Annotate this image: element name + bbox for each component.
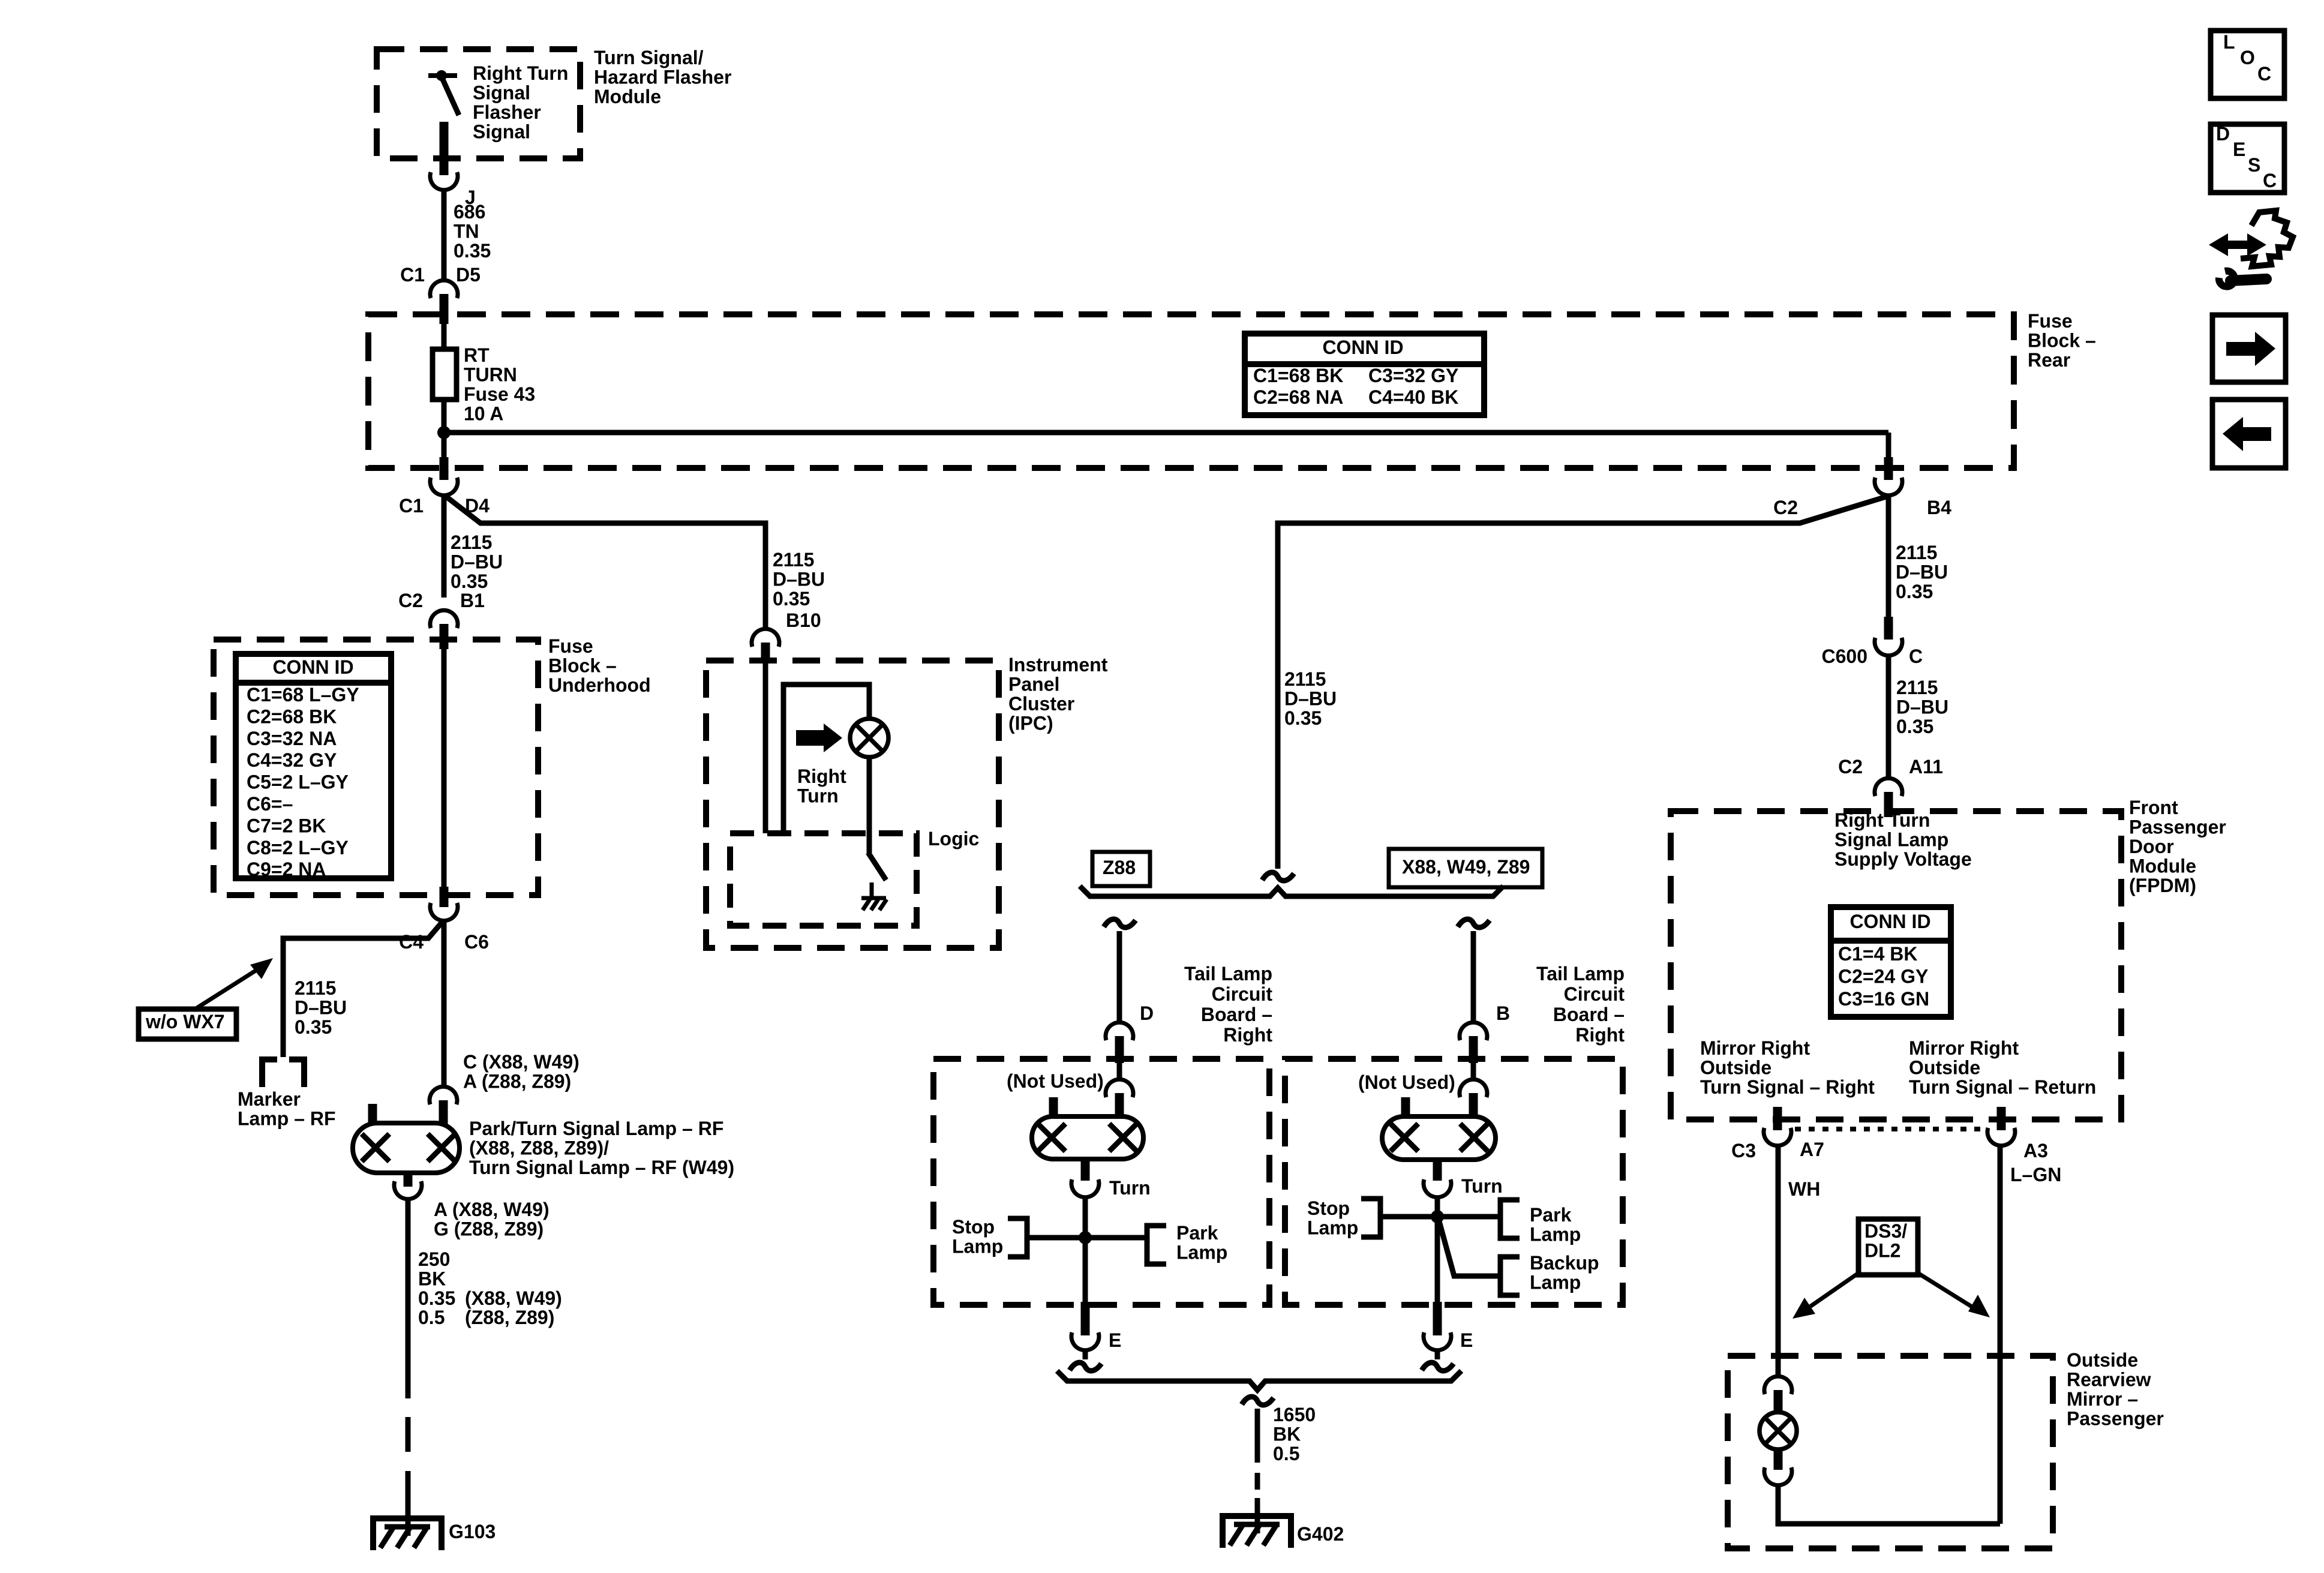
wire IPC lamp loop: [783, 685, 869, 833]
svg-text:0.35: 0.35: [451, 571, 488, 592]
wire into fuse: [442, 324, 447, 349]
svg-text:B4: B4: [1927, 497, 1951, 518]
stub to mirror lamp: [1774, 1390, 1783, 1413]
arrow from w/o WX7 box: [193, 966, 262, 1010]
svg-text:Stop: Stop: [952, 1216, 995, 1238]
connector J at flasher module: [430, 172, 458, 190]
svg-text:BK: BK: [418, 1268, 446, 1290]
svg-text:C6: C6: [464, 931, 489, 953]
wire below E left: [1083, 1350, 1088, 1359]
svg-text:Outside: Outside: [1909, 1057, 1980, 1079]
svg-text:Right Turn: Right Turn: [1834, 809, 1930, 831]
svg-text:DL2: DL2: [1864, 1240, 1900, 1262]
svg-text:Turn: Turn: [1461, 1175, 1503, 1197]
stub out of left tail lamp box: [1081, 1302, 1090, 1335]
svg-text:A3: A3: [2023, 1140, 2048, 1161]
svg-text:(Z88, Z89): (Z88, Z89): [465, 1307, 554, 1328]
svg-text:E: E: [1109, 1329, 1121, 1351]
svg-text:0.35: 0.35: [295, 1016, 332, 1038]
svg-text:Rearview: Rearview: [2067, 1369, 2151, 1391]
pin stub bottom (left lamp): [1081, 1159, 1090, 1181]
svg-text:C3=16 GN: C3=16 GN: [1838, 988, 1929, 1010]
svg-text:B1: B1: [460, 590, 485, 611]
table CONN ID FPDM: [1831, 907, 1951, 1017]
wire fanout C6 to marker branch: [283, 922, 442, 1057]
pin stub right park-turn lamp: [439, 1100, 448, 1124]
svg-text:D–BU: D–BU: [1896, 697, 1948, 718]
connector B10: [752, 629, 779, 647]
tilde end of 2115 center wire: [1262, 872, 1294, 881]
wire below E right: [1435, 1350, 1440, 1359]
svg-text:C4=40 BK: C4=40 BK: [1368, 386, 1458, 408]
svg-text:C1=4 BK: C1=4 BK: [1838, 943, 1918, 965]
stub out of fuse block rear left: [440, 457, 449, 480]
svg-text:Logic: Logic: [928, 828, 979, 849]
connector C1/D5 fuse block rear: [430, 280, 458, 298]
box w/o WX7: [139, 1009, 236, 1039]
wire module output stub: [440, 122, 449, 175]
svg-text:Right Turn: Right Turn: [473, 62, 568, 84]
svg-text:10 A: 10 A: [464, 403, 503, 425]
svg-text:Hazard Flasher: Hazard Flasher: [594, 67, 731, 88]
stub into right tail lamp box: [1469, 1036, 1478, 1063]
wire Z88 drop: [1117, 931, 1122, 1022]
connector B tail lamp board: [1460, 1022, 1487, 1040]
wire fanout B4 to center branch: [1278, 497, 1886, 869]
svg-text:2115: 2115: [1896, 677, 1938, 698]
svg-text:Supply Voltage: Supply Voltage: [1834, 848, 1972, 870]
wire 250 BK to ground: [406, 1471, 411, 1536]
svg-text:C8=2 L–GY: C8=2 L–GY: [247, 837, 349, 858]
icon right arrow box: [2212, 315, 2286, 382]
stub out of FPDM right: [1997, 1107, 2006, 1130]
brace splice spread upper: [1080, 886, 1503, 896]
connector C600/C stub: [1884, 617, 1893, 640]
svg-text:C: C: [1909, 646, 1923, 667]
svg-text:250: 250: [418, 1248, 450, 1270]
svg-text:C7=2 BK: C7=2 BK: [247, 815, 326, 836]
svg-text:Turn Signal Lamp – RF (W49): Turn Signal Lamp – RF (W49): [469, 1157, 734, 1178]
tilde E right: [1422, 1362, 1454, 1371]
icon DESC box: [2211, 124, 2284, 193]
svg-text:G (Z88, Z89): G (Z88, Z89): [434, 1218, 544, 1240]
svg-text:2115: 2115: [1896, 542, 1937, 563]
svg-text:Board –: Board –: [1553, 1004, 1625, 1025]
svg-text:C2=24 GY: C2=24 GY: [1838, 966, 1928, 987]
svg-text:G103: G103: [449, 1521, 496, 1542]
connector into mirror lamp: [1764, 1376, 1792, 1394]
svg-text:Rear: Rear: [2028, 349, 2070, 371]
connector below mirror lamp: [1764, 1467, 1792, 1485]
fuse RT TURN Fuse 43 10A: [433, 349, 457, 400]
dotted connector tie C3: [1795, 1127, 1984, 1131]
svg-text:DS3/: DS3/: [1864, 1220, 1907, 1242]
pin stub bottom (right lamp): [1433, 1160, 1442, 1181]
pin stub left park-turn lamp (not used): [368, 1104, 377, 1125]
svg-text:Passenger: Passenger: [2129, 816, 2226, 838]
arrow DS3 left: [1806, 1273, 1858, 1310]
lamp tail right: [1382, 1116, 1496, 1160]
svg-text:Park: Park: [1530, 1204, 1572, 1226]
svg-text:D5: D5: [456, 264, 481, 286]
svg-text:Park: Park: [1176, 1222, 1218, 1244]
box Tail Lamp Circuit Board right: [1285, 1059, 1623, 1305]
connector lamp pin (right): [1460, 1079, 1487, 1097]
svg-text:B10: B10: [786, 610, 821, 631]
svg-text:Fuse 43: Fuse 43: [464, 383, 535, 405]
wire to junction (left lamp): [1083, 1197, 1088, 1305]
connector C3/A7: [1764, 1128, 1791, 1146]
svg-text:C: C: [2257, 63, 2271, 85]
svg-text:1650: 1650: [1273, 1404, 1316, 1425]
svg-text:C1=68 BK: C1=68 BK: [1253, 365, 1343, 386]
box Fuse Block - Underhood: [214, 640, 538, 895]
box Outside Rearview Mirror - Passenger: [1728, 1356, 2053, 1548]
wire to junction (right lamp): [1435, 1197, 1440, 1305]
box Instrument Panel Cluster IPC: [706, 661, 999, 948]
bracket Park Lamp right: [1500, 1200, 1520, 1238]
svg-text:(Not Used): (Not Used): [1007, 1070, 1104, 1092]
icon component locator (car with arrow and wrench): [2209, 233, 2247, 256]
box Logic: [730, 833, 917, 926]
svg-text:E: E: [2233, 139, 2245, 160]
svg-text:Outside: Outside: [2067, 1349, 2138, 1371]
svg-text:0.35: 0.35: [1284, 707, 1322, 729]
table CONN ID fuse block rear: [1245, 334, 1484, 415]
svg-text:C9=2 NA: C9=2 NA: [247, 858, 326, 880]
svg-text:(X88, Z88, Z89)/: (X88, Z88, Z89)/: [469, 1137, 609, 1159]
svg-text:TN: TN: [454, 221, 479, 242]
svg-text:2115: 2115: [773, 549, 814, 571]
wire 250 BK: [406, 1199, 411, 1398]
connector D tail lamp board: [1106, 1022, 1133, 1040]
svg-text:0.35: 0.35: [1896, 581, 1933, 602]
svg-text:D–BU: D–BU: [451, 551, 503, 573]
svg-text:C6=–: C6=–: [247, 793, 293, 815]
connector C2/B4: [1875, 478, 1902, 496]
bracket Park Lamp left: [1147, 1226, 1166, 1264]
svg-text:0.35: 0.35: [454, 240, 491, 262]
pin stub right (left lamp): [1115, 1093, 1124, 1116]
svg-text:Outside: Outside: [1700, 1057, 1771, 1079]
ground G402: [1223, 1516, 1291, 1548]
svg-text:Signal: Signal: [473, 82, 530, 104]
svg-text:O: O: [2240, 47, 2255, 68]
svg-text:Fuse: Fuse: [2028, 310, 2073, 332]
connector Turn (right lamp): [1424, 1179, 1451, 1197]
wire 250 BK dashed segment: [406, 1417, 411, 1452]
wire 1650 dashed segment: [1255, 1473, 1260, 1490]
svg-text:Board –: Board –: [1201, 1004, 1272, 1025]
svg-text:Tail Lamp: Tail Lamp: [1184, 963, 1272, 984]
wire main below C4/C6: [442, 921, 447, 1087]
svg-text:0.35: 0.35: [418, 1287, 455, 1309]
connector E (right): [1424, 1332, 1451, 1350]
wire to lamp pin (left board): [1117, 1063, 1122, 1079]
svg-text:C1=68 L–GY: C1=68 L–GY: [247, 684, 359, 706]
svg-text:Tail Lamp: Tail Lamp: [1536, 963, 1625, 984]
lamp Park/Turn Signal Lamp - RF: [353, 1123, 460, 1173]
pin stub left not used (left lamp): [1049, 1097, 1058, 1119]
svg-text:Lamp: Lamp: [952, 1236, 1003, 1257]
tilde top of X88 drop: [1458, 919, 1490, 927]
svg-text:C2=68 NA: C2=68 NA: [1253, 386, 1343, 408]
wire 1650 to ground: [1255, 1498, 1260, 1533]
svg-text:Mirror –: Mirror –: [2067, 1388, 2138, 1410]
wire stop-park crossbar right: [1380, 1214, 1500, 1220]
svg-text:Front: Front: [2129, 797, 2178, 818]
wire X88 drop: [1471, 931, 1476, 1022]
connector C2/B1 underhood: [430, 610, 458, 628]
svg-text:BK: BK: [1273, 1424, 1301, 1445]
tilde top of Z88 drop: [1104, 919, 1136, 927]
svg-text:2115: 2115: [1284, 668, 1326, 690]
svg-text:Turn: Turn: [797, 785, 839, 807]
svg-text:Z88: Z88: [1103, 857, 1136, 878]
svg-text:Right: Right: [1223, 1024, 1272, 1046]
svg-text:WH: WH: [1788, 1178, 1820, 1200]
svg-text:Module: Module: [2129, 855, 2196, 877]
svg-text:E: E: [1460, 1329, 1473, 1351]
svg-text:Signal: Signal: [473, 121, 530, 143]
ground G103: [373, 1518, 442, 1550]
svg-text:Turn Signal – Return: Turn Signal – Return: [1909, 1076, 2096, 1098]
connector A/G park-turn lamp: [394, 1181, 422, 1199]
svg-text:Door: Door: [2129, 836, 2174, 857]
switch in logic box: [868, 852, 886, 880]
wire inside underhood: [442, 649, 447, 888]
ground in logic box: [870, 882, 874, 898]
switch Right Turn Signal Flasher Signal: [428, 73, 457, 78]
svg-text:2115: 2115: [295, 977, 336, 999]
pin stub right (right lamp): [1469, 1093, 1478, 1116]
svg-text:C3=32 GY: C3=32 GY: [1368, 365, 1458, 386]
connector lamp pin (left): [1106, 1079, 1133, 1097]
svg-text:A11: A11: [1909, 756, 1943, 778]
svg-text:C4: C4: [399, 931, 424, 953]
svg-text:Marker: Marker: [238, 1088, 301, 1110]
connector C4/C6: [430, 903, 458, 921]
svg-text:C5=2 L–GY: C5=2 L–GY: [247, 772, 349, 793]
svg-text:L–GN: L–GN: [2010, 1164, 2061, 1185]
table CONN ID underhood: [236, 654, 391, 878]
svg-text:C3=32 NA: C3=32 NA: [247, 728, 337, 749]
svg-text:C1: C1: [399, 495, 424, 517]
svg-text:Signal Lamp: Signal Lamp: [1834, 829, 1948, 851]
icon LOC box: [2211, 31, 2284, 98]
svg-text:Turn Signal – Right: Turn Signal – Right: [1700, 1076, 1875, 1098]
wire to lamp pin (right board): [1471, 1063, 1476, 1079]
wire fanout D4 to IPC branch: [446, 497, 765, 629]
pin stub left not used (right lamp): [1401, 1097, 1410, 1119]
brace splice spread lower: [1057, 1371, 1461, 1390]
svg-text:D–BU: D–BU: [773, 569, 825, 590]
svg-text:Mirror Right: Mirror Right: [1909, 1037, 2019, 1059]
svg-text:Turn Signal/: Turn Signal/: [594, 47, 704, 68]
svg-text:Right: Right: [1575, 1024, 1625, 1046]
svg-text:C1: C1: [400, 264, 425, 286]
svg-text:RT: RT: [464, 344, 490, 366]
svg-text:D: D: [2216, 123, 2230, 145]
svg-text:L: L: [2223, 31, 2235, 53]
bracket Backup Lamp right: [1500, 1257, 1520, 1295]
wire A7 down: [1776, 1146, 1781, 1377]
svg-text:Instrument: Instrument: [1008, 654, 1108, 676]
svg-text:Backup: Backup: [1530, 1252, 1599, 1274]
wire 1650 BK: [1255, 1409, 1260, 1463]
svg-text:C4=32 GY: C4=32 GY: [247, 749, 337, 771]
svg-text:Cluster: Cluster: [1008, 693, 1074, 715]
svg-text:D: D: [1140, 1002, 1154, 1024]
svg-text:Circuit: Circuit: [1212, 983, 1273, 1005]
svg-text:C600: C600: [1822, 646, 1868, 667]
wire stop-park crossbar left: [1027, 1235, 1146, 1241]
svg-text:A7: A7: [1800, 1139, 1824, 1160]
wire bus to right: [444, 430, 1888, 436]
box Turn Signal/Hazard Flasher Module: [377, 49, 580, 158]
svg-text:D–BU: D–BU: [1896, 562, 1948, 583]
arrow DL2 right: [1918, 1273, 1974, 1308]
icon left arrow box: [2212, 400, 2286, 468]
connector C1/D4: [430, 478, 458, 496]
svg-text:S: S: [2248, 154, 2260, 176]
svg-text:Lamp: Lamp: [1530, 1224, 1581, 1245]
tilde E left: [1070, 1362, 1101, 1371]
svg-text:(Not Used): (Not Used): [1358, 1071, 1455, 1093]
svg-text:CONN ID: CONN ID: [272, 656, 353, 678]
svg-text:D–BU: D–BU: [1284, 688, 1337, 710]
svg-text:Turn: Turn: [1109, 1177, 1151, 1199]
svg-text:C2: C2: [1773, 497, 1798, 518]
svg-text:w/o WX7: w/o WX7: [145, 1011, 225, 1032]
svg-text:A (X88, W49): A (X88, W49): [434, 1199, 550, 1220]
svg-text:Panel: Panel: [1008, 674, 1059, 695]
connector C600/C: [1875, 638, 1902, 656]
junction right lamp node: [1431, 1210, 1444, 1223]
svg-text:0.5: 0.5: [418, 1307, 445, 1328]
svg-text:2115: 2115: [451, 532, 492, 553]
wire backup branch: [1439, 1219, 1500, 1276]
wire B4 down: [1886, 495, 1891, 618]
svg-text:C3: C3: [1731, 1140, 1756, 1161]
box Front Passenger Door Module FPDM: [1671, 811, 2121, 1119]
svg-text:Block –: Block –: [2028, 330, 2096, 352]
svg-text:0.35: 0.35: [1896, 716, 1933, 737]
svg-text:Module: Module: [594, 86, 661, 107]
svg-text:Block –: Block –: [548, 655, 617, 677]
svg-text:Lamp: Lamp: [1307, 1217, 1358, 1239]
svg-text:Mirror Right: Mirror Right: [1700, 1037, 1810, 1059]
wire main down from D4: [442, 495, 447, 598]
wire mirror loop: [1778, 1485, 2000, 1524]
svg-text:C2: C2: [398, 590, 423, 611]
svg-text:Lamp: Lamp: [1530, 1272, 1581, 1293]
box Fuse Block - Rear: [368, 314, 2014, 468]
pin stub bottom park-turn lamp: [404, 1173, 413, 1187]
wire C600 to A11: [1886, 656, 1891, 778]
svg-text:CONN ID: CONN ID: [1849, 911, 1930, 932]
svg-text:Flasher: Flasher: [473, 101, 541, 123]
stub into fuse block rear: [440, 294, 449, 324]
junction fuse output node: [437, 426, 451, 439]
svg-text:B: B: [1496, 1002, 1510, 1024]
svg-text:C2=68 BK: C2=68 BK: [247, 706, 337, 727]
svg-text:C (X88, W49): C (X88, W49): [463, 1051, 580, 1073]
svg-text:(X88, W49): (X88, W49): [465, 1287, 562, 1309]
lamp tail left: [1032, 1116, 1143, 1159]
stub into left tail lamp box: [1115, 1036, 1124, 1063]
label Z88 box: [1092, 852, 1150, 886]
svg-text:Stop: Stop: [1307, 1197, 1350, 1219]
svg-text:D–BU: D–BU: [295, 997, 347, 1019]
svg-text:Lamp – RF: Lamp – RF: [238, 1108, 336, 1130]
wire lamp to logic: [867, 757, 872, 853]
stub below mirror lamp: [1774, 1448, 1783, 1470]
connector Marker Lamp - RF (unmated): [262, 1059, 277, 1087]
stub into underhood box: [440, 624, 449, 649]
box DS3/DL2: [1858, 1219, 1918, 1275]
label X88, W49, Z89 box: [1389, 849, 1542, 887]
stub out of underhood box: [440, 887, 449, 907]
stub into IPC: [761, 643, 770, 658]
svg-text:Passenger: Passenger: [2067, 1408, 2164, 1430]
stub out of right tail lamp box: [1433, 1302, 1442, 1335]
svg-text:G402: G402: [1297, 1523, 1344, 1545]
svg-text:X88, W49, Z89: X88, W49, Z89: [1402, 856, 1530, 878]
wire bus drop right: [1886, 433, 1891, 457]
svg-text:Lamp: Lamp: [1176, 1242, 1227, 1263]
indicator arrow right turn: [796, 730, 824, 746]
bracket Stop Lamp right: [1361, 1199, 1380, 1237]
svg-text:(FPDM): (FPDM): [2129, 875, 2196, 896]
box Tail Lamp Circuit Board left: [933, 1059, 1269, 1305]
connector C2/A11: [1875, 778, 1902, 796]
connector C3/A3: [1987, 1128, 2015, 1146]
bracket Stop Lamp left: [1008, 1218, 1027, 1257]
connector pin C/A park-turn lamp: [430, 1086, 457, 1104]
wire fuse to junction: [442, 400, 447, 461]
svg-text:Fuse: Fuse: [548, 635, 593, 657]
svg-text:0.5: 0.5: [1273, 1443, 1299, 1464]
lamp Right Turn indicator: [850, 719, 888, 757]
wire B10 inside IPC: [763, 656, 768, 833]
svg-text:Underhood: Underhood: [548, 674, 651, 696]
stub out of fuse block rear right: [1884, 457, 1893, 480]
svg-text:0.35: 0.35: [773, 588, 810, 610]
stub out of FPDM left: [1773, 1107, 1782, 1130]
connector Turn (left lamp): [1071, 1179, 1099, 1197]
svg-text:TURN: TURN: [464, 364, 517, 386]
svg-text:C2: C2: [1838, 756, 1863, 778]
stub into FPDM: [1884, 792, 1893, 817]
svg-text:Park/Turn Signal Lamp – RF: Park/Turn Signal Lamp – RF: [469, 1118, 723, 1139]
junction left lamp node: [1079, 1231, 1092, 1244]
svg-text:Circuit: Circuit: [1564, 983, 1625, 1005]
svg-text:686: 686: [454, 201, 485, 223]
lamp mirror turn signal: [1759, 1412, 1797, 1449]
tilde top of 1650 wire: [1242, 1397, 1274, 1405]
svg-text:C: C: [2263, 170, 2277, 191]
connector E (left): [1071, 1332, 1099, 1350]
svg-text:(IPC): (IPC): [1008, 713, 1053, 734]
svg-text:A (Z88, Z89): A (Z88, Z89): [463, 1071, 571, 1092]
svg-text:CONN ID: CONN ID: [1322, 337, 1403, 358]
wire A3 down: [1998, 1146, 2003, 1524]
svg-text:Right: Right: [797, 766, 846, 787]
wire 686 TN: [442, 190, 447, 280]
